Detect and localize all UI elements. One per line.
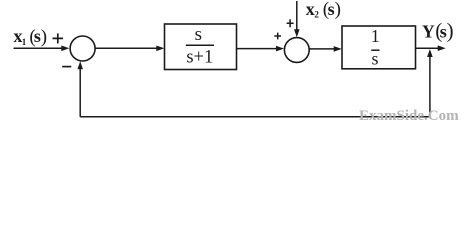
plus sign at x2 input of summer S2 (287, 19, 294, 27)
wire summer S2 to block G2 (309, 46, 341, 52)
feedback wire up into summer S1 (77, 61, 83, 117)
fraction bar of G2 (371, 49, 379, 51)
svg-text:1: 1 (22, 37, 27, 47)
svg-text:): ) (447, 19, 454, 43)
block G1 s/(s+1) (165, 24, 237, 70)
label x2(s) (306, 0, 341, 20)
fraction bar of G1 (186, 44, 214, 46)
svg-text:1: 1 (371, 26, 380, 46)
svg-text:2: 2 (314, 10, 319, 20)
svg-text:ExamSide.Com: ExamSide.Com (359, 108, 459, 124)
input label x1(s) (14, 26, 48, 47)
plus sign at x1 input of summer S1 (53, 33, 64, 43)
svg-text:): ) (335, 0, 341, 20)
summing junction S2 (284, 38, 309, 63)
svg-text:s: s (328, 0, 335, 19)
svg-text:s: s (371, 48, 378, 68)
svg-text:s+1: s+1 (186, 48, 213, 68)
block G2 1/s (342, 26, 416, 69)
feedback tap arrow into output wire (427, 49, 433, 117)
svg-text:s: s (195, 24, 202, 45)
summing junction S1 (70, 36, 95, 61)
wire block G1 to summer S2 (237, 46, 285, 52)
svg-text:Y: Y (422, 22, 435, 42)
output label Y(s) (422, 19, 454, 43)
wire summer S1 to block G1 (95, 46, 164, 52)
minus sign at feedback input of summer S1 (62, 66, 71, 68)
wire x1 input to summer S1 (14, 46, 70, 52)
output wire block G2 to Y(s) (416, 45, 446, 51)
svg-text:): ) (41, 26, 47, 47)
plus sign at forward input of summer S2 (274, 33, 281, 40)
wire x2 input down to summer S2 (294, 1, 300, 37)
feedback bottom wire (80, 116, 430, 118)
